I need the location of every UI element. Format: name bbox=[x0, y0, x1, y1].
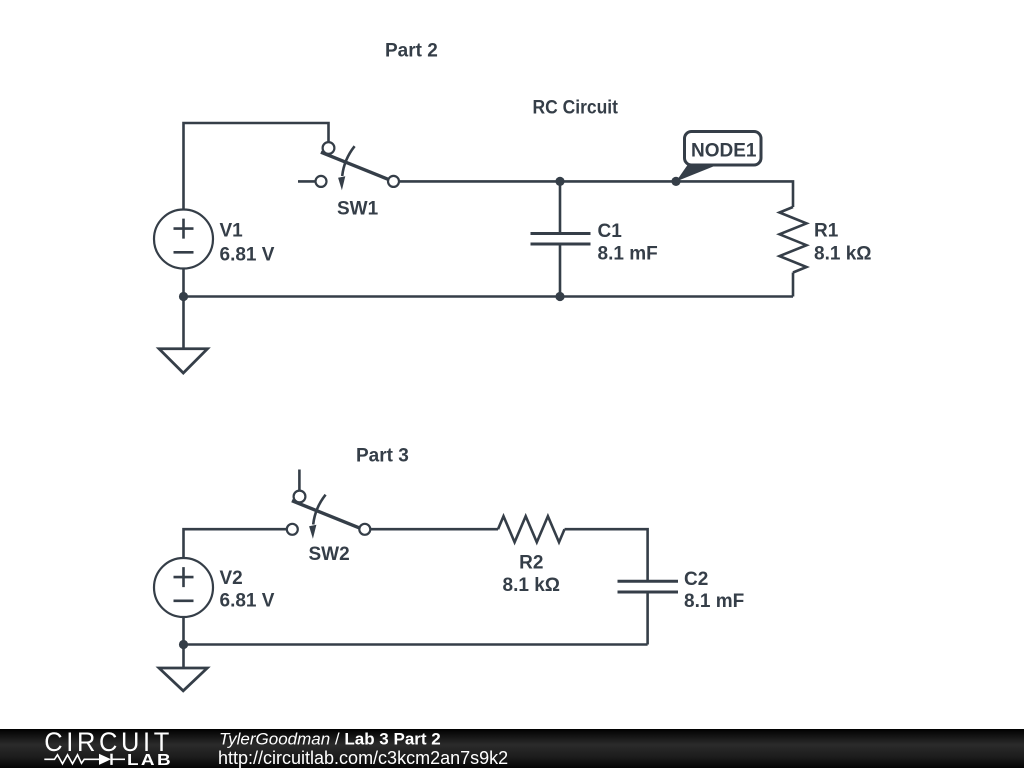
wire bottom rail part3 bbox=[184, 643, 648, 646]
svg-text:Part 3: Part 3 bbox=[356, 446, 409, 467]
wire R1 bottom lead bbox=[792, 273, 795, 297]
svg-text:Part 2: Part 2 bbox=[385, 41, 438, 62]
wire V1 top to SW1 pivot bbox=[184, 123, 329, 210]
wire V2 bottom to ground bbox=[182, 616, 185, 668]
svg-text:TylerGoodman / Lab 3 Part 2: TylerGoodman / Lab 3 Part 2 bbox=[219, 730, 441, 749]
wire SW2 right contact to R2 bbox=[371, 528, 498, 531]
wire C1 bottom lead bbox=[559, 244, 562, 297]
switch SW1 bbox=[316, 142, 400, 190]
wire C2 bottom lead bbox=[646, 592, 649, 645]
svg-text:8.1 kΩ: 8.1 kΩ bbox=[814, 244, 872, 265]
ground part2 bbox=[159, 349, 208, 373]
svg-text:8.1 mF: 8.1 mF bbox=[684, 591, 744, 612]
svg-text:V2: V2 bbox=[220, 568, 243, 589]
svg-text:RC Circuit: RC Circuit bbox=[533, 98, 619, 119]
wire C1 top lead bbox=[559, 181, 562, 233]
voltage source V2 bbox=[154, 558, 213, 617]
svg-text:8.1 kΩ: 8.1 kΩ bbox=[503, 575, 561, 596]
wire SW2 pivot stub bbox=[298, 470, 301, 492]
svg-text:6.81 V: 6.81 V bbox=[220, 245, 275, 266]
svg-text:http://circuitlab.com/c3kcm2an: http://circuitlab.com/c3kcm2an7s9k2 bbox=[218, 748, 508, 768]
switch SW2 bbox=[287, 491, 371, 539]
capacitor C1 bbox=[531, 234, 591, 245]
svg-text:R2: R2 bbox=[519, 553, 543, 574]
svg-text:SW1: SW1 bbox=[337, 199, 379, 220]
wire SW1 left contact lead bbox=[298, 180, 316, 183]
resistor R2 bbox=[498, 516, 565, 542]
wire V2 top to SW2 left contact bbox=[184, 529, 287, 558]
junction dot C1 top bbox=[555, 177, 564, 186]
junction dot V2 bottom bbox=[179, 640, 188, 649]
CircuitLab logo bbox=[44, 727, 173, 769]
wire V1 bottom to ground bbox=[182, 269, 185, 349]
svg-text:8.1 mF: 8.1 mF bbox=[598, 244, 658, 265]
svg-text:V1: V1 bbox=[220, 221, 244, 242]
wire SW1 right contact to R1 top bbox=[399, 181, 793, 207]
resistor R1 bbox=[780, 207, 807, 273]
junction dot NODE1 bbox=[671, 177, 680, 186]
wire R2 to C2 top bbox=[565, 529, 648, 581]
capacitor C2 bbox=[618, 581, 679, 592]
svg-text:R1: R1 bbox=[814, 221, 839, 242]
footer bar bbox=[0, 729, 1024, 768]
ground part3 bbox=[159, 668, 207, 691]
junction dot C1 bottom bbox=[555, 292, 564, 301]
wire bottom rail part2 bbox=[184, 295, 794, 298]
voltage source V1 bbox=[154, 210, 213, 269]
svg-text:6.81 V: 6.81 V bbox=[220, 591, 275, 612]
svg-text:SW2: SW2 bbox=[309, 544, 350, 565]
svg-text:C1: C1 bbox=[598, 221, 623, 242]
svg-text:NODE1: NODE1 bbox=[691, 141, 757, 162]
svg-text:C2: C2 bbox=[684, 569, 708, 590]
svg-text:LAB: LAB bbox=[127, 752, 173, 768]
node NODE1 flag bbox=[676, 132, 761, 182]
junction dot V1 bottom bbox=[179, 292, 188, 301]
